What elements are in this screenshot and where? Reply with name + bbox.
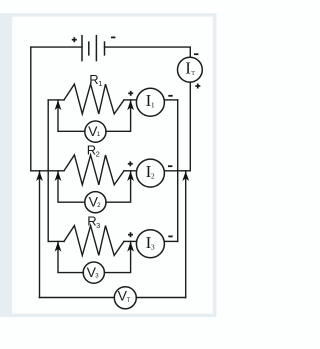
wire: top right from battery to IT bbox=[105, 47, 191, 57]
svg-text:1: 1 bbox=[98, 79, 102, 88]
ammeter U-I1 circle bbox=[136, 88, 164, 116]
voltmeter U-V3 circle bbox=[83, 262, 104, 283]
battery B1 bbox=[82, 36, 105, 61]
label I3 - bbox=[168, 236, 172, 238]
wire: R3 to I3 bbox=[124, 240, 137, 242]
label I1 + bbox=[128, 91, 133, 96]
wire: right vertical A I1 node to I3 node bbox=[177, 100, 179, 242]
arrow into R2 wire right bbox=[127, 171, 134, 181]
arrow into R3 node left bbox=[55, 242, 62, 252]
arrow into R2 node from bottom-rail riser bbox=[36, 171, 43, 181]
node R1-left horizontal bbox=[48, 99, 64, 101]
ammeter U-I3 circle bbox=[136, 230, 164, 258]
wire: I2 to IT vertical bbox=[164, 170, 190, 172]
ammeter U-I2 circle bbox=[136, 159, 164, 187]
frame (decorative) bbox=[0, 13, 216, 317]
voltmeter U-VT circle bbox=[114, 287, 136, 309]
wire: right vertical C I2 node down to bottom rail bbox=[185, 171, 187, 298]
resistor R3 zigzag bbox=[64, 226, 124, 256]
arrow into R3 wire right bbox=[127, 242, 134, 252]
svg-text:T: T bbox=[191, 71, 195, 77]
svg-text:I: I bbox=[185, 58, 191, 77]
voltmeter U-V2 circle bbox=[85, 192, 106, 213]
arrow into R2 wire left bbox=[55, 171, 62, 181]
node R3-left horizontal bbox=[48, 240, 64, 242]
label battery + bbox=[72, 37, 77, 42]
voltmeter U-V1 circle bbox=[85, 121, 106, 142]
svg-text:1: 1 bbox=[151, 101, 155, 110]
wire: R2 to I2 bbox=[124, 170, 137, 172]
svg-text:3: 3 bbox=[96, 221, 100, 230]
svg-text:3: 3 bbox=[151, 243, 155, 252]
arrow into R1 wire right bbox=[127, 100, 134, 110]
wire: bottom-rail return riser up to R2 node bbox=[39, 171, 41, 298]
label I1 - bbox=[168, 95, 172, 97]
wire: left vertical R1 node to R3 node bbox=[47, 100, 49, 242]
wire: I1 to right vertical A bbox=[164, 99, 177, 101]
label I2 - bbox=[168, 165, 172, 167]
label I3 + bbox=[128, 232, 133, 237]
wire: I3 to right vertical A bbox=[164, 240, 177, 242]
resistor R2 zigzag bbox=[64, 155, 124, 185]
node R2-left horizontal bbox=[31, 170, 64, 172]
ammeter U-IT circle bbox=[178, 57, 203, 82]
bottom rail wire VT to right bbox=[136, 297, 185, 299]
arrow into R1 node left bbox=[55, 100, 62, 110]
svg-text:T: T bbox=[127, 298, 131, 304]
wire: main left bus down to R2 node bbox=[30, 47, 32, 171]
svg-text:R: R bbox=[89, 72, 98, 87]
label IT - bbox=[194, 53, 198, 55]
voltmeter loop V3 wires bbox=[58, 241, 83, 272]
resistor R1 zigzag bbox=[64, 84, 124, 114]
arrowheads bbox=[36, 100, 189, 251]
svg-text:2: 2 bbox=[96, 149, 100, 158]
wire: top left from battery to main bus corner bbox=[31, 46, 82, 48]
bottom rail wire to VT bbox=[40, 297, 115, 299]
label battery - bbox=[111, 37, 115, 39]
wire: R1 to I1 bbox=[124, 99, 137, 101]
label IT + bbox=[195, 84, 200, 89]
label I2 + bbox=[128, 161, 133, 166]
svg-text:2: 2 bbox=[151, 172, 155, 181]
arrow into I2 node from bottom rail bbox=[182, 171, 189, 181]
voltmeter loop V2 wires bbox=[58, 171, 85, 202]
voltmeter loop V1 wires bbox=[58, 100, 85, 131]
wire: IT down to I2 node bbox=[189, 82, 191, 171]
